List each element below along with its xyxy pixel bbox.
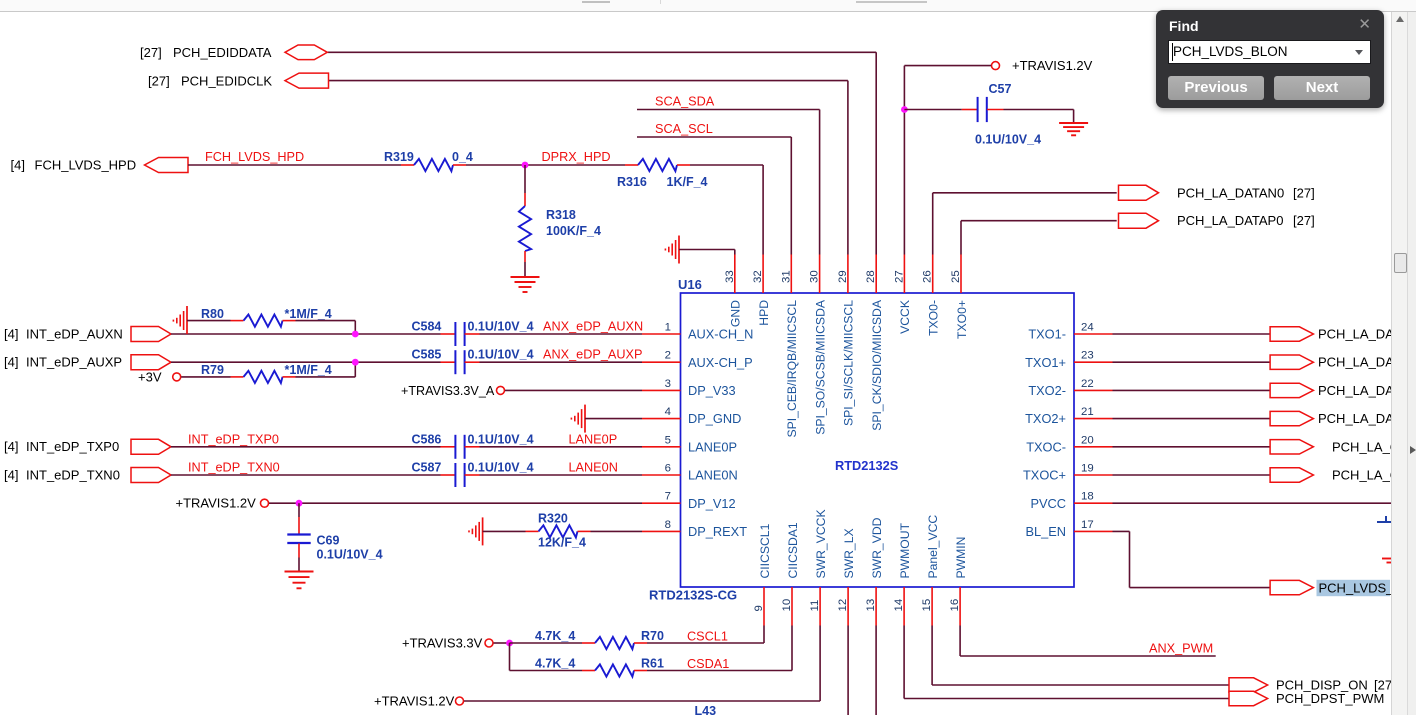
wire INT_eDP_AUXP [171, 361, 441, 363]
wire +TRAVIS3.3V junction [494, 642, 510, 644]
svg-text:SPI_CK/SDIO/MIICSDA: SPI_CK/SDIO/MIICSDA [870, 299, 884, 431]
svg-text:0.1U/10V_4: 0.1U/10V_4 [468, 461, 534, 475]
label C585 value 0.1U/10V_4 [412, 348, 534, 362]
svg-text:R318: R318 [546, 208, 576, 222]
svg-text:[4]: [4] [4, 467, 18, 482]
wire pin 12 down [847, 626, 849, 715]
svg-text:LANE0N: LANE0N [569, 461, 618, 475]
junction on VCCK net [901, 106, 908, 113]
label [4] INT_eDP_AUXP [4, 355, 122, 370]
wire ground to pin 33 [679, 250, 735, 255]
label [4] INT_eDP_AUXN [4, 326, 123, 341]
edge fragment ground (cut) [1382, 559, 1392, 563]
svg-text:INT_eDP_AUXN: INT_eDP_AUXN [26, 326, 123, 341]
svg-text:C584: C584 [412, 320, 442, 334]
label [27] PCH_EDIDCLK [148, 74, 272, 89]
power +TRAVIS1.2V (bottom) [374, 694, 464, 709]
U16 pin 33 stub [734, 255, 736, 294]
svg-text:PWMOUT: PWMOUT [898, 522, 912, 578]
svg-text:9: 9 [753, 605, 765, 611]
ground (R320, rotated) [469, 517, 483, 545]
label R319 value 0_4 [384, 150, 473, 164]
svg-text:20: 20 [1081, 434, 1094, 446]
wire DPRX_HPD to pin 32 [690, 165, 763, 255]
svg-text:15: 15 [921, 599, 933, 612]
wire net PCH_LA_DATAP0 [961, 221, 1117, 255]
svg-text:U16: U16 [678, 277, 702, 292]
wire pin 15 to PCH_DISP_ON [932, 626, 1229, 686]
splitter handle arrow [1410, 446, 1416, 454]
ground (R318) [511, 277, 540, 292]
svg-text:SCA_SDA: SCA_SDA [655, 95, 715, 109]
resistor R320 [483, 525, 591, 537]
U16 pin 32 stub [762, 255, 764, 294]
port PCH_EDIDDATA (hexagon) [285, 45, 327, 60]
U16 pin 30 stub [819, 255, 821, 294]
svg-text:AUX-CH_N: AUX-CH_N [688, 327, 753, 342]
svg-text:LANE0N: LANE0N [688, 468, 738, 483]
U16 pin 18 stub [1074, 502, 1113, 504]
label C57 value 0.1U/10V_4 [975, 82, 1041, 146]
port PCH_LA_CLKP (right arrow) [1270, 468, 1313, 482]
svg-text:INT_eDP_TXP0: INT_eDP_TXP0 [26, 439, 119, 454]
wire ground to pin 4 [585, 418, 642, 420]
svg-text:17: 17 [1081, 519, 1094, 531]
label [27] PCH_EDIDDATA [140, 45, 272, 60]
wire +TRAVIS1.2V to pin 7 [269, 502, 642, 504]
capacitor C585 [441, 350, 480, 374]
svg-text:TXO2+: TXO2+ [1025, 411, 1066, 426]
label C586 value 0.1U/10V_4 [412, 432, 534, 446]
svg-text:4.7K_4: 4.7K_4 [535, 656, 575, 670]
ground (GND pin 33, rotated) [665, 236, 679, 264]
svg-text:+TRAVIS1.2V: +TRAVIS1.2V [176, 496, 257, 511]
viewer top toolbar edge [0, 0, 1416, 12]
svg-text:7: 7 [665, 491, 671, 503]
ground (C57) [1059, 123, 1088, 135]
wire INT_eDP_TXP0 [171, 446, 441, 448]
U16 pin 12 stub [847, 587, 849, 626]
wire CSDA1 to pin 10 [647, 626, 792, 671]
search highlight PCH_LVDS_BLON [1317, 580, 1391, 596]
label C584 value 0.1U/10V_4 [412, 320, 534, 334]
svg-text:INT_eDP_TXN0: INT_eDP_TXN0 [188, 461, 280, 475]
capacitor C586 [441, 435, 480, 459]
svg-text:21: 21 [1081, 406, 1094, 418]
U16 pin 14 stub [903, 587, 905, 626]
svg-text:C69: C69 [317, 534, 340, 548]
wire +TRAVIS1.2V to pin 11 [464, 626, 820, 702]
U16 pin 3 stub [642, 389, 681, 391]
svg-text:11: 11 [809, 600, 821, 612]
U16 pin 16 stub [959, 587, 961, 626]
svg-text:0.1U/10V_4: 0.1U/10V_4 [468, 320, 534, 334]
wire C57 to ground [987, 110, 1074, 123]
resistor R79 [181, 371, 295, 383]
svg-text:TXO1-: TXO1- [1028, 327, 1066, 342]
port PCH_LVDS_BLON (right arrow) [1270, 580, 1313, 594]
svg-text:CIICSDA1: CIICSDA1 [786, 522, 800, 578]
svg-text:R79: R79 [201, 363, 224, 377]
wire ANX_eDP_AUXP to pin 2 [480, 361, 643, 363]
svg-text:ANX_eDP_AUXN: ANX_eDP_AUXN [543, 320, 643, 334]
wire net +TRAVIS1.2V to pin 27 [904, 66, 991, 255]
svg-text:RTD2132S: RTD2132S [835, 458, 899, 473]
scrollbar up arrow [1396, 16, 1404, 22]
svg-text:22: 22 [1081, 378, 1094, 390]
port PCH_LA_DATAP2 (right arrow) [1270, 411, 1313, 425]
wire CSCL1 to pin 9 [647, 626, 764, 644]
svg-text:GND: GND [729, 300, 743, 327]
svg-text:SWR_VCCK: SWR_VCCK [814, 509, 828, 578]
svg-text:6: 6 [665, 463, 671, 475]
svg-text:R70: R70 [641, 629, 664, 643]
svg-text:ANX_eDP_AUXP: ANX_eDP_AUXP [543, 348, 642, 362]
U16 pin 29 stub [847, 255, 849, 294]
svg-text:PCH_DPST_PWM: PCH_DPST_PWM [1276, 691, 1384, 706]
label R80 value *1M/F_4 [201, 307, 332, 321]
U16 pin 24 stub [1074, 333, 1113, 335]
U16 pin 5 stub [642, 446, 681, 448]
junction R79/AUXP [352, 359, 359, 366]
wire LANE0P to pin 5 [480, 446, 643, 448]
svg-text:+TRAVIS3.3V_A: +TRAVIS3.3V_A [401, 384, 495, 398]
wire LANE0N to pin 6 [480, 474, 643, 476]
svg-text:PCH_EDIDCLK: PCH_EDIDCLK [181, 74, 272, 89]
svg-text:4: 4 [665, 406, 671, 418]
svg-text:SPI_CEB/IRQB/MIICSCL: SPI_CEB/IRQB/MIICSCL [785, 300, 799, 438]
svg-text:+TRAVIS1.2V: +TRAVIS1.2V [374, 694, 455, 709]
U16 pin 25 stub [960, 255, 962, 294]
port PCH_LA_DATAP1 (right arrow) [1270, 355, 1313, 369]
wire net PCH_LA_DATAN1 [1113, 333, 1271, 335]
capacitor C69 branch wire [298, 503, 300, 534]
svg-text:C585: C585 [412, 348, 442, 362]
resistor R318 (pulldown) [519, 165, 531, 277]
wire net PCH_EDIDCLK [328, 81, 848, 255]
svg-text:25: 25 [950, 270, 962, 283]
svg-text:[4]: [4] [4, 326, 18, 341]
U16 pin 15 stub [931, 587, 933, 626]
capacitor C584 [441, 322, 480, 346]
svg-text:Panel_VCC: Panel_VCC [926, 515, 940, 579]
U16 pin 21 stub [1074, 418, 1113, 420]
svg-text:0.1U/10V_4: 0.1U/10V_4 [468, 432, 534, 446]
U16 pin 23 stub [1074, 361, 1113, 363]
svg-text:+TRAVIS1.2V: +TRAVIS1.2V [1012, 58, 1093, 73]
wire net PCH_LA_DATAN2 [1113, 389, 1271, 391]
port PCH_LA_DATAN1 (right arrow) [1270, 327, 1313, 341]
svg-text:12: 12 [837, 599, 849, 612]
svg-text:R320: R320 [538, 512, 568, 526]
label C69 value 0.1U/10V_4 [317, 534, 383, 562]
svg-text:TXO0+: TXO0+ [955, 300, 969, 339]
svg-text:R80: R80 [201, 307, 224, 321]
svg-text:*1M/F_4: *1M/F_4 [285, 363, 332, 377]
wire to C57 [904, 109, 977, 111]
svg-text:[27]: [27] [140, 45, 162, 60]
svg-text:26: 26 [922, 270, 934, 283]
label [4] INT_eDP_TXP0 [4, 439, 119, 454]
U16 pin 4 stub [642, 418, 681, 420]
U16 pin 8 stub [642, 530, 681, 532]
svg-text:100K/F_4: 100K/F_4 [546, 224, 601, 238]
label PCH_DISP_ON [27] [1276, 678, 1396, 693]
U16 pin 28 stub [875, 255, 877, 294]
wire DPRX_HPD [466, 164, 625, 166]
svg-text:10: 10 [781, 599, 793, 612]
svg-text:1K/F_4: 1K/F_4 [667, 175, 708, 189]
wire net PCH_LA_DATAP2 [1113, 418, 1271, 420]
wire net PCH_LA_DATAN0 [933, 193, 1117, 255]
svg-text:[27]: [27] [148, 74, 170, 89]
port PCH_LA_DATAN2 (right arrow) [1270, 383, 1313, 397]
svg-text:FCH_LVDS_HPD: FCH_LVDS_HPD [35, 157, 137, 172]
svg-text:+3V: +3V [138, 370, 162, 385]
port PCH_LA_DATAP0 (right arrow) [1119, 213, 1159, 228]
svg-text:CSDA1: CSDA1 [687, 657, 729, 671]
resistor R61 [510, 643, 648, 677]
svg-text:SCA_SCL: SCA_SCL [655, 122, 713, 136]
wire net PCH_LA_CLKN [1113, 446, 1271, 448]
wire pin 14 to PCH_DPST_PWM [904, 626, 1229, 699]
svg-text:0.1U/10V_4: 0.1U/10V_4 [317, 547, 383, 561]
svg-text:1: 1 [665, 322, 671, 334]
svg-text:SWR_LX: SWR_LX [842, 528, 856, 578]
svg-text:FCH_LVDS_HPD: FCH_LVDS_HPD [205, 150, 304, 164]
wire R79 to AUXP junction [296, 362, 356, 377]
port INT_eDP_AUXN (right arrow) [131, 327, 171, 342]
svg-text:C57: C57 [989, 82, 1012, 96]
svg-text:13: 13 [865, 599, 877, 612]
svg-text:TXOC-: TXOC- [1026, 439, 1066, 454]
svg-text:AUX-CH_P: AUX-CH_P [688, 355, 753, 370]
svg-text:0.1U/10V_4: 0.1U/10V_4 [468, 348, 534, 362]
port PCH_DPST_PWM (right arrow) [1229, 691, 1268, 705]
svg-text:DP_V12: DP_V12 [688, 496, 736, 511]
junction C69 node [296, 500, 303, 507]
capacitor C69 [287, 535, 310, 544]
svg-text:CIICSCL1: CIICSCL1 [758, 523, 772, 578]
U16 pin 13 stub [875, 587, 877, 626]
svg-text:0.1U/10V_4: 0.1U/10V_4 [975, 132, 1041, 146]
svg-text:23: 23 [1081, 350, 1094, 362]
svg-text:PWMIN: PWMIN [954, 537, 968, 579]
svg-text:DP_V33: DP_V33 [688, 383, 736, 398]
capacitor C587 [441, 463, 480, 487]
svg-text:CSCL1: CSCL1 [687, 629, 728, 643]
label R320 value 12K/F_4 [538, 512, 586, 550]
wire net SCA_SCL [637, 137, 791, 255]
label R79 value *1M/F_4 [201, 363, 332, 377]
ground (R80, rotated) [173, 306, 187, 334]
wire R80 to AUXN junction [296, 321, 356, 334]
svg-text:24: 24 [1081, 322, 1094, 334]
svg-text:[4]: [4] [11, 157, 25, 172]
svg-text:19: 19 [1081, 463, 1094, 475]
power +TRAVIS3.3V_A [401, 384, 505, 398]
svg-text:SPI_SI/SCLK/MIICSCL: SPI_SI/SCLK/MIICSCL [842, 300, 856, 426]
svg-text:14: 14 [893, 599, 905, 612]
U16 pin 19 stub [1074, 474, 1113, 476]
svg-text:ANX_PWM: ANX_PWM [1149, 642, 1213, 656]
ground (C69) [285, 572, 314, 589]
svg-text:2: 2 [665, 350, 671, 362]
port PCH_DISP_ON (right arrow) [1229, 678, 1268, 692]
svg-text:0_4: 0_4 [452, 150, 473, 164]
power +TRAVIS3.3V (bottom) [402, 636, 493, 651]
junction DPRX_HPD node [522, 162, 529, 169]
svg-text:C586: C586 [412, 432, 442, 446]
svg-text:4.7K_4: 4.7K_4 [535, 629, 575, 643]
scrollbar thumb [1394, 253, 1407, 273]
junction +TRAVIS3.3V [506, 640, 513, 647]
wire +TRAVIS3.3V_A to pin 3 [505, 389, 642, 391]
svg-text:RTD2132S-CG: RTD2132S-CG [649, 588, 737, 603]
resistor R319 [401, 159, 466, 171]
svg-text:R316: R316 [617, 175, 647, 189]
svg-text:HPD: HPD [757, 300, 771, 326]
wire net PVCC (pin 18) [1113, 502, 1393, 504]
svg-text:DP_REXT: DP_REXT [688, 524, 747, 539]
port INT_eDP_TXP0 (right arrow) [131, 439, 171, 454]
svg-text:BL_EN: BL_EN [1025, 524, 1066, 539]
wire net PCH_LA_DATAP1 [1113, 361, 1271, 363]
wire FCH_LVDS_HPD to R319 [188, 164, 401, 166]
U16 pin 26 stub [932, 255, 934, 294]
svg-text:PCH_EDIDDATA: PCH_EDIDDATA [173, 45, 272, 60]
label C587 value 0.1U/10V_4 [412, 461, 534, 475]
U16 pin 1 stub [642, 333, 681, 335]
wire pin 16 ANX_PWM [960, 626, 1216, 657]
svg-text:[27]: [27] [1293, 213, 1315, 228]
svg-text:PVCC: PVCC [1030, 496, 1066, 511]
edge fragment blue label (cut) [1377, 516, 1392, 522]
svg-text:R319: R319 [384, 150, 414, 164]
svg-text:SWR_VDD: SWR_VDD [870, 517, 884, 578]
svg-text:8: 8 [665, 519, 671, 531]
port FCH_LVDS_HPD (left arrow) [145, 158, 189, 173]
resistor R316 [625, 159, 690, 171]
svg-text:32: 32 [752, 270, 764, 283]
port INT_eDP_AUXP (right arrow) [131, 355, 171, 370]
svg-text:SPI_SO/SCSB/MIICSDA: SPI_SO/SCSB/MIICSDA [813, 299, 827, 435]
svg-text:C587: C587 [412, 461, 442, 475]
junction R80/AUXN [352, 331, 359, 338]
svg-text:INT_eDP_TXP0: INT_eDP_TXP0 [188, 432, 279, 446]
port PCH_LA_CLKN (right arrow) [1270, 440, 1313, 454]
label PCH_LA_DATAP0 [27] [1177, 213, 1315, 228]
resistor R80 [187, 315, 296, 327]
U16 pin 27 stub [903, 255, 905, 294]
svg-text:27: 27 [893, 270, 905, 283]
port INT_eDP_TXN0 (right arrow) [131, 468, 171, 483]
capacitor C57 [978, 97, 987, 122]
svg-text:18: 18 [1081, 491, 1094, 503]
wire INT_eDP_AUXN [171, 333, 441, 335]
power +3V [138, 370, 181, 385]
wire R320 to pin 8 [591, 530, 643, 532]
svg-text:R61: R61 [641, 656, 664, 670]
svg-text:+TRAVIS3.3V: +TRAVIS3.3V [402, 636, 483, 651]
wire C69 to ground [298, 544, 300, 572]
svg-text:31: 31 [780, 270, 792, 283]
wire net PCH_LA_CLKP [1113, 474, 1271, 476]
ground (DP_GND pin 4, rotated) [571, 405, 585, 433]
svg-text:33: 33 [724, 270, 736, 283]
svg-text:12K/F_4: 12K/F_4 [538, 536, 586, 550]
svg-text:INT_eDP_TXN0: INT_eDP_TXN0 [26, 467, 120, 482]
port PCH_LA_DATAN0 (right arrow) [1119, 185, 1159, 200]
label R318 value 100K/F_4 [546, 208, 601, 238]
U16 pin 22 stub [1074, 389, 1113, 391]
resistor R70 [510, 637, 648, 649]
wire net SCA_SDA [637, 110, 820, 255]
U16 pin 2 stub [642, 361, 681, 363]
U16 pin 10 stub [791, 587, 793, 626]
svg-text:TXO0-: TXO0- [927, 300, 941, 336]
svg-text:29: 29 [837, 270, 849, 283]
wire net PCH_LVDS_BLON (pin 17 BL_EN) [1113, 531, 1271, 587]
label [4] FCH_LVDS_HPD [11, 157, 137, 172]
svg-text:30: 30 [809, 270, 821, 283]
svg-text:3: 3 [665, 378, 671, 390]
U16 pin 31 stub [790, 255, 792, 294]
svg-text:TXO1+: TXO1+ [1025, 355, 1066, 370]
svg-text:INT_eDP_AUXP: INT_eDP_AUXP [26, 355, 122, 370]
U16 pin 20 stub [1074, 446, 1113, 448]
U16 pin 6 stub [642, 474, 681, 476]
svg-text:5: 5 [665, 434, 671, 446]
svg-text:DP_GND: DP_GND [688, 411, 741, 426]
wire INT_eDP_TXN0 [171, 474, 441, 476]
svg-text:VCCK: VCCK [898, 300, 912, 334]
svg-text:PCH_LA_DATAP0: PCH_LA_DATAP0 [1177, 213, 1283, 228]
svg-text:LANE0P: LANE0P [688, 439, 737, 454]
U16 pin 9 stub [763, 587, 765, 626]
power +TRAVIS1.2V (top) [992, 58, 1093, 73]
svg-text:[4]: [4] [4, 355, 18, 370]
U16 pin 11 stub [819, 587, 821, 626]
power +TRAVIS1.2V (left) [176, 496, 269, 511]
U16 pin 17 stub [1074, 530, 1113, 532]
vertical scrollbar [1391, 12, 1416, 715]
label R316 value 1K/F_4 [617, 175, 708, 189]
port PCH_EDIDCLK (left arrow) [285, 73, 329, 88]
U16 pin 7 stub [642, 502, 681, 504]
label PCH_LA_DATAN0 [27] [1177, 185, 1315, 200]
svg-text:DPRX_HPD: DPRX_HPD [542, 150, 611, 164]
svg-text:L43: L43 [695, 704, 717, 715]
svg-text:TXO2-: TXO2- [1028, 383, 1066, 398]
svg-text:*1M/F_4: *1M/F_4 [285, 307, 332, 321]
svg-text:28: 28 [865, 270, 877, 283]
wire pin 13 down [875, 626, 877, 715]
label [4] INT_eDP_TXN0 [4, 467, 120, 482]
svg-text:LANE0P: LANE0P [569, 432, 618, 446]
wire ANX_eDP_AUXN to pin 1 [480, 333, 643, 335]
svg-text:[4]: [4] [4, 439, 18, 454]
svg-text:PCH_LA_DATAN0: PCH_LA_DATAN0 [1177, 185, 1284, 200]
wire net PCH_EDIDDATA [328, 52, 877, 254]
svg-text:[27]: [27] [1293, 185, 1315, 200]
svg-text:16: 16 [949, 599, 961, 612]
Find dialog [1156, 10, 1384, 108]
op-amp-style IC U16 RTD2132S body [681, 293, 1075, 587]
svg-text:TXOC+: TXOC+ [1023, 468, 1066, 483]
